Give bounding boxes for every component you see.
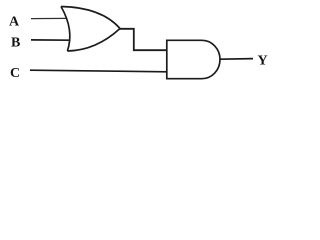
svg-text:C: C [10,66,20,81]
svg-text:Y: Y [258,54,268,69]
svg-text:B: B [11,35,20,50]
svg-text:A: A [9,15,20,30]
